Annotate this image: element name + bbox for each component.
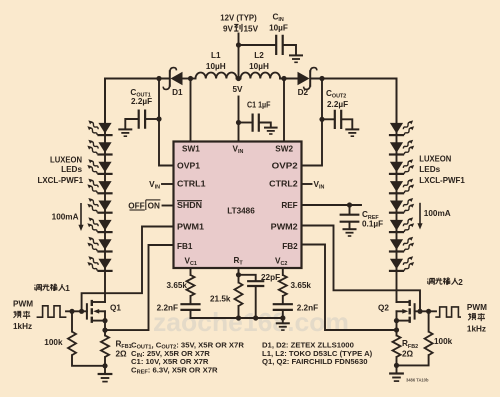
wire: CREF stem	[349, 205, 351, 214]
svg-text:PWM2: PWM2	[271, 223, 298, 232]
capacitor 2.2nF (VC1)	[180, 304, 200, 310]
wire: Q2 gate wire	[415, 310, 436, 312]
wire: Q2 body lead	[397, 310, 404, 312]
LED right #5	[389, 197, 415, 214]
svg-text:OVP1: OVP1	[177, 161, 200, 170]
Q1 body arrow	[93, 309, 99, 314]
inductor L2	[241, 72, 281, 78]
wire: left main ground stem	[104, 366, 106, 373]
wire: Q1 source/body vertical to RFB1	[104, 311, 106, 335]
wire: PWM1 net	[82, 227, 174, 312]
svg-text:9V: 9V	[223, 25, 234, 34]
wire: CREF to ground	[349, 222, 351, 229]
resistor 3.65k (VC2)	[279, 275, 287, 296]
svg-text:D1: D1	[172, 88, 183, 97]
wire: RT resistor bottom lead	[238, 306, 240, 318]
svg-text:3486 TA10b: 3486 TA10b	[406, 378, 429, 383]
svg-text:LEDs: LEDs	[61, 165, 82, 174]
node: Q1 gate / 100k junction	[69, 309, 74, 314]
wire: COUT2 to ground	[342, 119, 352, 128]
svg-text:LUXEON: LUXEON	[419, 154, 451, 163]
wire: RFB2 bottom lead	[396, 357, 398, 365]
wire: C1 branch	[239, 122, 252, 124]
LED right #8	[389, 255, 415, 272]
svg-text:2.2nF: 2.2nF	[157, 304, 178, 313]
svg-text:FB2: FB2	[282, 242, 298, 251]
wire: Q1 drain lead	[92, 301, 105, 303]
svg-text:RFB2: RFB2	[402, 339, 418, 350]
IC U1: LT3486 body	[174, 142, 302, 269]
svg-text:OVP2: OVP2	[272, 161, 299, 170]
wire: Q1 gate wire	[66, 310, 87, 312]
LED left #3	[86, 158, 112, 175]
LED left #6	[86, 216, 112, 233]
wire: SHDN stub	[163, 205, 174, 207]
ground (CREF)	[343, 229, 357, 236]
label: dimming input 2 (CJK)	[427, 278, 463, 287]
label: dimming input 1 (CJK)	[35, 284, 71, 293]
wire: 5V stub to VIN pin	[238, 97, 240, 142]
wire: 100k right top lead	[428, 311, 430, 331]
wire: CIN branch	[239, 44, 276, 46]
PWM waveform symbol (right)	[435, 307, 461, 317]
wire: D1 anode to SW1 junction	[183, 78, 196, 80]
resistor 3.65k (VC1)	[187, 275, 195, 296]
ground (COUT2)	[345, 129, 359, 136]
node: C1 junction	[236, 120, 241, 125]
node: 22pF bottom rail junction	[253, 315, 258, 320]
resistor 100k (right)	[425, 332, 433, 356]
wire: CTRL2 stub	[302, 183, 312, 185]
wire: OVP1 net (output sense left)	[159, 79, 174, 166]
wire: 100k left top lead	[71, 311, 73, 331]
node: SW2 junction	[281, 76, 286, 81]
wire: Q2 drain lead	[397, 301, 410, 303]
svg-text:SW2: SW2	[275, 145, 293, 154]
svg-text:CREF: 6.3V, X5R OR X7R: CREF: 6.3V, X5R OR X7R	[131, 365, 218, 375]
svg-text:VIN: VIN	[149, 180, 160, 191]
svg-text:L2: L2	[254, 51, 264, 60]
wire: CIN to ground	[284, 45, 296, 55]
svg-text:LXCL-PWF1: LXCL-PWF1	[38, 176, 84, 185]
wire: COUT1 to ground	[125, 119, 137, 129]
node: Q2 gate / 100k junction	[426, 309, 431, 314]
LED right #6	[389, 216, 415, 233]
wire: VC2 RC to bottom rail	[282, 296, 284, 318]
capacitor CREF (0.1uF)	[340, 215, 360, 222]
capacitor C1 (1uF)	[253, 114, 259, 132]
wire: C1 to ground	[259, 123, 271, 128]
node: right ground node	[394, 363, 399, 368]
node: output left / D1 cathode	[156, 76, 161, 81]
wire: Q1 source lead	[92, 320, 105, 322]
wire: Q1 body lead	[99, 310, 106, 312]
resistor 21.5k (RT)	[235, 283, 243, 307]
svg-text:OFF: OFF	[128, 201, 144, 210]
svg-text:VIN: VIN	[314, 180, 325, 191]
wire: VC1 RC to bottom rail	[190, 296, 192, 318]
node: VC2 rail/ground junction	[280, 315, 285, 320]
wire: VC1 pin lead	[190, 268, 192, 275]
wire: SW1 junction to IC SW1 pin	[190, 79, 192, 142]
svg-text:1kHz: 1kHz	[13, 322, 32, 331]
svg-text:21.5k: 21.5k	[210, 295, 231, 304]
node: output right / D2 cathode	[319, 76, 324, 81]
svg-text:100mA: 100mA	[424, 209, 451, 218]
wire: left LED string	[104, 79, 106, 303]
wire: D2 cathode to right output rail corner	[311, 79, 397, 123]
wire: FB2 net	[302, 245, 397, 331]
svg-text:1kHz: 1kHz	[467, 324, 486, 333]
svg-text:CTRL1: CTRL1	[177, 180, 206, 189]
label: PWM frequency (CJK, right)	[468, 313, 485, 321]
wire: SW2 junction to IC SW2 pin	[283, 79, 285, 142]
LED left #5	[86, 197, 112, 214]
PWM waveform symbol (left)	[37, 306, 67, 317]
ground (right main)	[389, 374, 404, 382]
capacitor COUT2 (2.2uF)	[335, 110, 341, 129]
svg-text:LUXEON: LUXEON	[50, 156, 82, 165]
wire: COUT1 branch	[146, 118, 159, 120]
svg-text:Q2: Q2	[378, 303, 389, 312]
svg-text:15V: 15V	[244, 25, 259, 34]
node: 21.5k bottom rail junction	[236, 315, 241, 320]
node: Q2 gate / PWM2 junction	[417, 309, 422, 314]
svg-text:CIN: CIN	[273, 12, 284, 23]
svg-text:C1 1µF: C1 1µF	[247, 100, 271, 109]
svg-text:LXCL-PWF1: LXCL-PWF1	[419, 176, 465, 185]
node: Q1 source / FB1 junction	[102, 328, 107, 333]
inductor L1	[196, 72, 237, 78]
svg-text:PWM1: PWM1	[177, 223, 204, 232]
resistor 100k (left)	[68, 332, 76, 356]
LED left #2	[86, 138, 112, 155]
wire: 12V input drop	[238, 34, 240, 79]
svg-text:PWM: PWM	[467, 303, 487, 312]
Q2 body arrow	[402, 309, 408, 314]
svg-text:FB1: FB1	[177, 242, 193, 251]
node: SW1 junction	[188, 76, 193, 81]
svg-text:REF: REF	[281, 201, 297, 210]
wire: 22pF branch	[239, 275, 256, 281]
diode D1 (schottky, pointing left)	[163, 68, 182, 90]
node: Q2 source/body junction	[394, 318, 399, 323]
LED left #8	[86, 255, 112, 272]
wire: Q2 source lead	[397, 320, 410, 322]
capacitor CIN (10uF)	[276, 35, 283, 55]
node: Q1 gate / PWM1 junction	[79, 309, 84, 314]
wire: 100k left bottom lead to ground node	[72, 355, 105, 366]
LED left #4	[86, 177, 112, 194]
wire: Q2 source/body vertical to RFB2	[396, 311, 398, 335]
node: CIN tap	[236, 42, 241, 47]
wire: L1 to center junction	[237, 78, 241, 80]
capacitor 22pF (RT)	[247, 281, 264, 286]
node: Q2 source / FB2 junction	[394, 327, 399, 332]
wire: VC2 pin lead	[282, 268, 284, 275]
svg-text:CTRL2: CTRL2	[269, 180, 298, 189]
svg-text:SW1: SW1	[182, 145, 200, 154]
svg-text:22pF: 22pF	[261, 273, 280, 282]
wire: 100k right bottom lead to ground node	[397, 355, 429, 365]
wire: OVP2 net (output sense right)	[302, 79, 323, 166]
LED right #7	[389, 235, 415, 252]
node: 12V rail junction	[236, 76, 241, 81]
svg-text:2: 2	[458, 278, 463, 287]
svg-text:L1: L1	[211, 51, 221, 60]
wire: bottom rail ground stem	[282, 318, 284, 323]
svg-text:100mA: 100mA	[52, 212, 79, 221]
LED right #2	[389, 138, 415, 155]
ground (COUT1)	[118, 129, 132, 136]
svg-text:10µH: 10µH	[249, 62, 269, 71]
wire: COUT2 branch	[322, 118, 334, 120]
LED left #7	[86, 235, 112, 252]
svg-text:3.65k: 3.65k	[291, 281, 312, 290]
diode D2 (schottky, pointing right)	[298, 68, 317, 90]
wire: RT pin lead	[238, 268, 240, 283]
svg-text:2.2nF: 2.2nF	[297, 304, 318, 313]
100mA arrow (left)	[78, 203, 83, 231]
wire: REF net	[302, 204, 362, 206]
svg-text:10µH: 10µH	[206, 62, 226, 71]
wire: RFB1 bottom lead	[104, 357, 106, 366]
node: Q1 source/body junction	[102, 318, 107, 323]
svg-text:LEDs: LEDs	[419, 165, 440, 174]
ground (left main)	[98, 374, 113, 382]
ground (CIN)	[289, 55, 303, 62]
wire: 22pF bottom stem	[255, 286, 257, 318]
svg-text:D2: D2	[298, 88, 309, 97]
capacitor 2.2nF (VC2)	[273, 304, 293, 310]
label: CJK dao (to) in 9V-15V	[234, 24, 242, 31]
wire: CTRL1 stub	[162, 183, 174, 185]
node: REF/CREF junction	[347, 202, 352, 207]
wire: right main ground stem	[396, 365, 398, 371]
svg-text:12V (TYP): 12V (TYP)	[220, 13, 257, 22]
svg-text:5V: 5V	[232, 85, 243, 94]
svg-text:Q1: Q1	[110, 303, 121, 312]
svg-text:1: 1	[65, 284, 70, 293]
capacitor COUT1 (2.2uF)	[139, 110, 145, 129]
transistor Q1 (NMOS)	[87, 300, 92, 323]
svg-text:3.65k: 3.65k	[167, 281, 188, 290]
svg-text:2.2µF: 2.2µF	[327, 100, 348, 109]
svg-text:2Ω: 2Ω	[116, 350, 128, 359]
svg-text:0.1µF: 0.1µF	[362, 220, 383, 229]
LED left #1	[86, 119, 112, 136]
svg-text:100k: 100k	[44, 338, 63, 347]
svg-text:Q1, Q2: FAIRCHILD FDN5630: Q1, Q2: FAIRCHILD FDN5630	[262, 357, 368, 366]
100mA arrow (right)	[417, 203, 422, 230]
wire: PWM2 net	[302, 226, 421, 312]
resistor RFB2 (2 ohm)	[393, 335, 401, 356]
svg-text:PWM: PWM	[13, 300, 33, 309]
node: left ground node	[102, 363, 107, 368]
svg-text:zaoche168.com: zaoche168.com	[153, 307, 349, 337]
node: COUT1 junction	[156, 116, 161, 121]
wire: L2 to SW2 junction to D2 anode	[280, 78, 297, 80]
svg-text:LT3486: LT3486	[227, 206, 255, 215]
resistor RFB1 (2 ohm)	[101, 335, 109, 356]
svg-text:SHDN: SHDN	[177, 201, 202, 210]
node: RT junction	[236, 272, 241, 277]
LED right #1	[389, 119, 415, 136]
wire: right LED string	[396, 79, 398, 303]
node: COUT2 junction	[319, 117, 324, 122]
label: PWM frequency (CJK, left)	[13, 311, 30, 319]
transistor Q2 (NMOS, mirrored)	[410, 300, 415, 323]
LED right #3	[389, 158, 415, 175]
svg-text:2.2µF: 2.2µF	[131, 97, 152, 106]
svg-text:ON: ON	[148, 201, 160, 210]
svg-text:100k: 100k	[434, 337, 453, 346]
wire: top rail left segment (output node to D1 cathode)	[105, 79, 170, 123]
svg-text:2Ω: 2Ω	[402, 349, 414, 358]
LED right #4	[389, 177, 415, 194]
wire: FB1 net	[105, 245, 174, 330]
ground (C1)	[264, 128, 278, 134]
svg-text:COUT2: COUT2	[326, 89, 346, 100]
svg-text:10µF: 10µF	[269, 23, 288, 32]
wire: compensation bottom rail	[191, 317, 283, 319]
ground (compensation rail)	[276, 323, 290, 330]
